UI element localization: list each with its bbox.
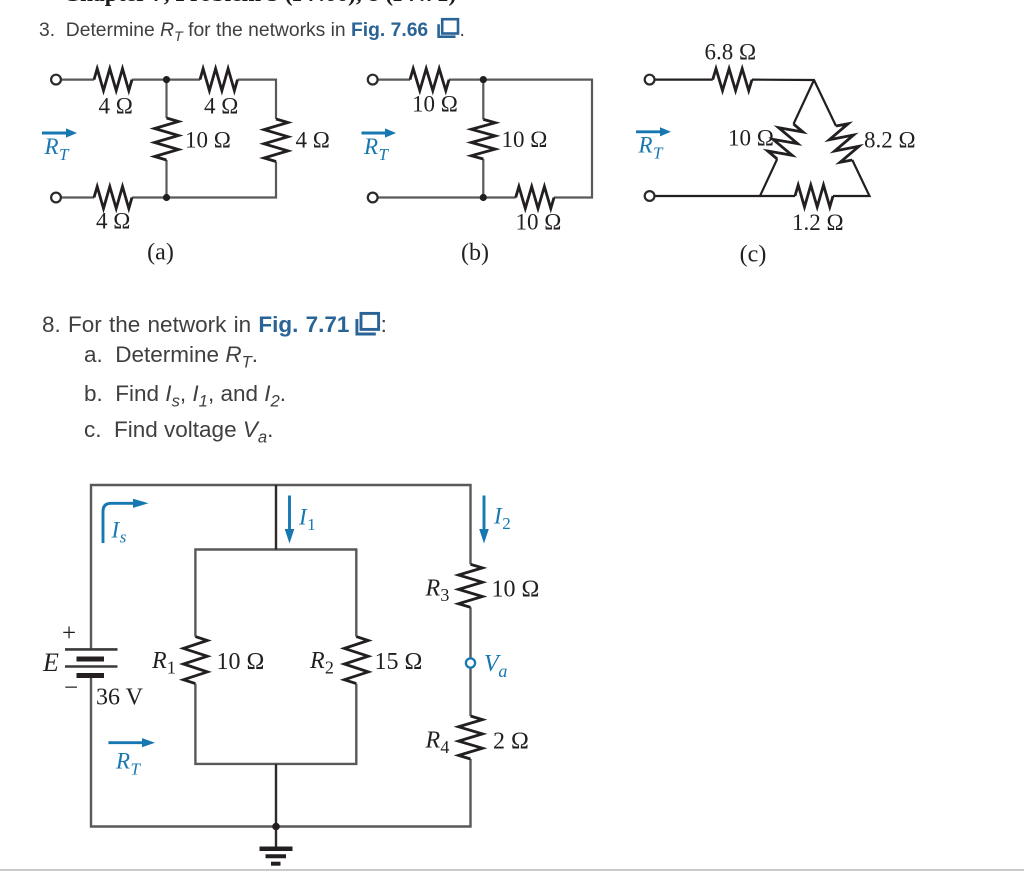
svg-text:−: −: [64, 675, 78, 702]
svg-text:2 Ω: 2 Ω: [493, 729, 529, 755]
svg-text:2: 2: [502, 514, 511, 533]
svg-text:T: T: [131, 760, 142, 779]
svg-text:R: R: [44, 134, 59, 159]
svg-text:4 Ω: 4 Ω: [204, 94, 238, 119]
svg-text:T: T: [653, 144, 664, 163]
svg-text:1.2 Ω: 1.2 Ω: [792, 210, 844, 235]
svg-text:a: a: [498, 661, 507, 681]
svg-text:10 Ω: 10 Ω: [185, 128, 231, 153]
svg-text:4 Ω: 4 Ω: [296, 128, 330, 153]
svg-text:10 Ω: 10 Ω: [728, 126, 774, 151]
svg-text:R: R: [425, 728, 441, 754]
svg-text:(c): (c): [740, 242, 767, 268]
svg-text:T: T: [59, 145, 70, 164]
svg-text:10 Ω: 10 Ω: [217, 649, 265, 675]
svg-text:2: 2: [325, 658, 334, 678]
svg-text:10 Ω: 10 Ω: [412, 92, 458, 117]
svg-text:4: 4: [440, 737, 449, 757]
svg-text:R: R: [638, 133, 653, 158]
svg-text:15 Ω: 15 Ω: [375, 649, 423, 675]
svg-text:10 Ω: 10 Ω: [502, 127, 548, 152]
svg-text:(a): (a): [147, 240, 174, 266]
svg-text:R: R: [151, 648, 167, 674]
svg-text:(b): (b): [461, 240, 489, 266]
svg-text:R: R: [425, 576, 441, 602]
svg-text:4 Ω: 4 Ω: [99, 94, 133, 119]
svg-text:10 Ω: 10 Ω: [492, 577, 540, 603]
svg-text:3: 3: [440, 585, 449, 605]
svg-text:R: R: [309, 648, 325, 674]
svg-text:s: s: [120, 528, 127, 547]
svg-text:R: R: [115, 749, 130, 774]
svg-text:+: +: [62, 620, 76, 647]
svg-text:T: T: [379, 145, 390, 164]
svg-text:1: 1: [167, 658, 176, 678]
svg-text:R: R: [363, 134, 378, 159]
svg-text:36 V: 36 V: [96, 685, 144, 711]
svg-text:1: 1: [307, 515, 316, 534]
svg-text:4 Ω: 4 Ω: [96, 209, 130, 234]
svg-text:8.2 Ω: 8.2 Ω: [864, 128, 916, 153]
svg-text:6.8 Ω: 6.8 Ω: [705, 40, 757, 65]
svg-text:E: E: [42, 648, 59, 677]
svg-text:10 Ω: 10 Ω: [516, 210, 562, 235]
